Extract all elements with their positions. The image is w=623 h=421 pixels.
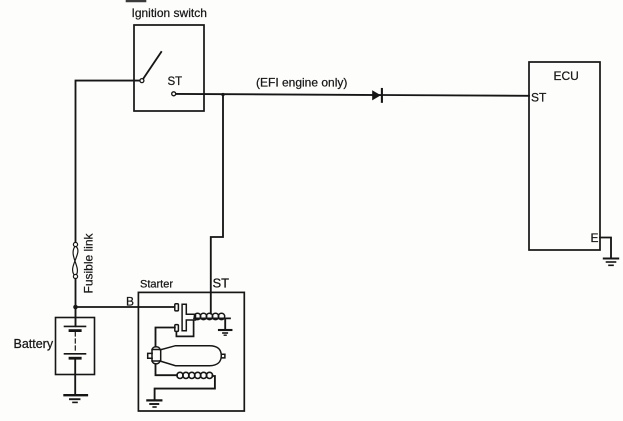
- node: battery/starter B junction: [73, 305, 78, 310]
- ground (starter motor): [147, 400, 161, 407]
- svg-text:ECU: ECU: [554, 69, 579, 83]
- switch pivot terminal circle: [140, 79, 144, 83]
- solenoid plunger (T shape): [182, 304, 195, 331]
- wire: E pin to ground: [600, 238, 611, 258]
- starter box: [138, 292, 244, 411]
- wire: fusible link to battery junction and into battery: [75, 279, 77, 326]
- wire: field coil to starter ground: [155, 376, 215, 400]
- svg-text:ST: ST: [168, 76, 183, 88]
- wire: lower contact to coil junction (hook): [176, 321, 193, 336]
- ECU box: [529, 62, 600, 250]
- fusible link: [73, 242, 78, 278]
- scan artifact (top edge mark): [127, 0, 145, 2]
- starter motor body: [148, 346, 225, 366]
- shaft nub left: [148, 353, 152, 358]
- bottom brush dome: [152, 361, 160, 364]
- wire: branch down to starter ST: [211, 95, 223, 314]
- svg-text:Battery: Battery: [14, 337, 54, 351]
- solenoid B contact: [175, 304, 179, 311]
- battery box: [56, 318, 95, 375]
- svg-text:Fusible link: Fusible link: [82, 232, 96, 293]
- ST terminal circle: [172, 92, 176, 96]
- solenoid motor-side contact: [175, 325, 179, 332]
- svg-text:(EFI engine only): (EFI engine only): [256, 76, 347, 90]
- wire: coil end down to ground: [224, 319, 226, 330]
- main body capsule: [161, 346, 222, 366]
- diode D1: [372, 89, 382, 102]
- field coil: [177, 372, 213, 378]
- svg-text:E: E: [591, 231, 599, 245]
- wire: battery junction to starter B contact: [76, 306, 175, 308]
- ground (ECU): [604, 259, 618, 266]
- ground (battery): [65, 395, 87, 402]
- wire: battery negative to ground: [74, 358, 76, 394]
- solenoid pull-in coil: [194, 313, 230, 319]
- ignition switch box: [134, 25, 204, 111]
- ground (solenoid coil): [219, 330, 231, 335]
- wire: ST terminal to ECU: [176, 94, 529, 96]
- svg-text:Ignition switch: Ignition switch: [132, 6, 207, 20]
- wire: bottom brush to field coil: [156, 365, 178, 376]
- node: junction of ST wire and starter branch: [221, 93, 224, 96]
- right nub: [221, 354, 225, 358]
- svg-text:ST: ST: [213, 276, 230, 291]
- wire: left vertical from switch pivot down to fusible link: [76, 81, 140, 243]
- svg-text:Starter: Starter: [140, 279, 173, 291]
- top brush dome: [152, 347, 160, 350]
- battery cell symbol: [65, 307, 86, 358]
- wire: motor-side contact to brush: [156, 328, 175, 346]
- commutator left section: [152, 350, 161, 362]
- svg-text:ST: ST: [531, 91, 547, 105]
- switch lever: [143, 52, 161, 79]
